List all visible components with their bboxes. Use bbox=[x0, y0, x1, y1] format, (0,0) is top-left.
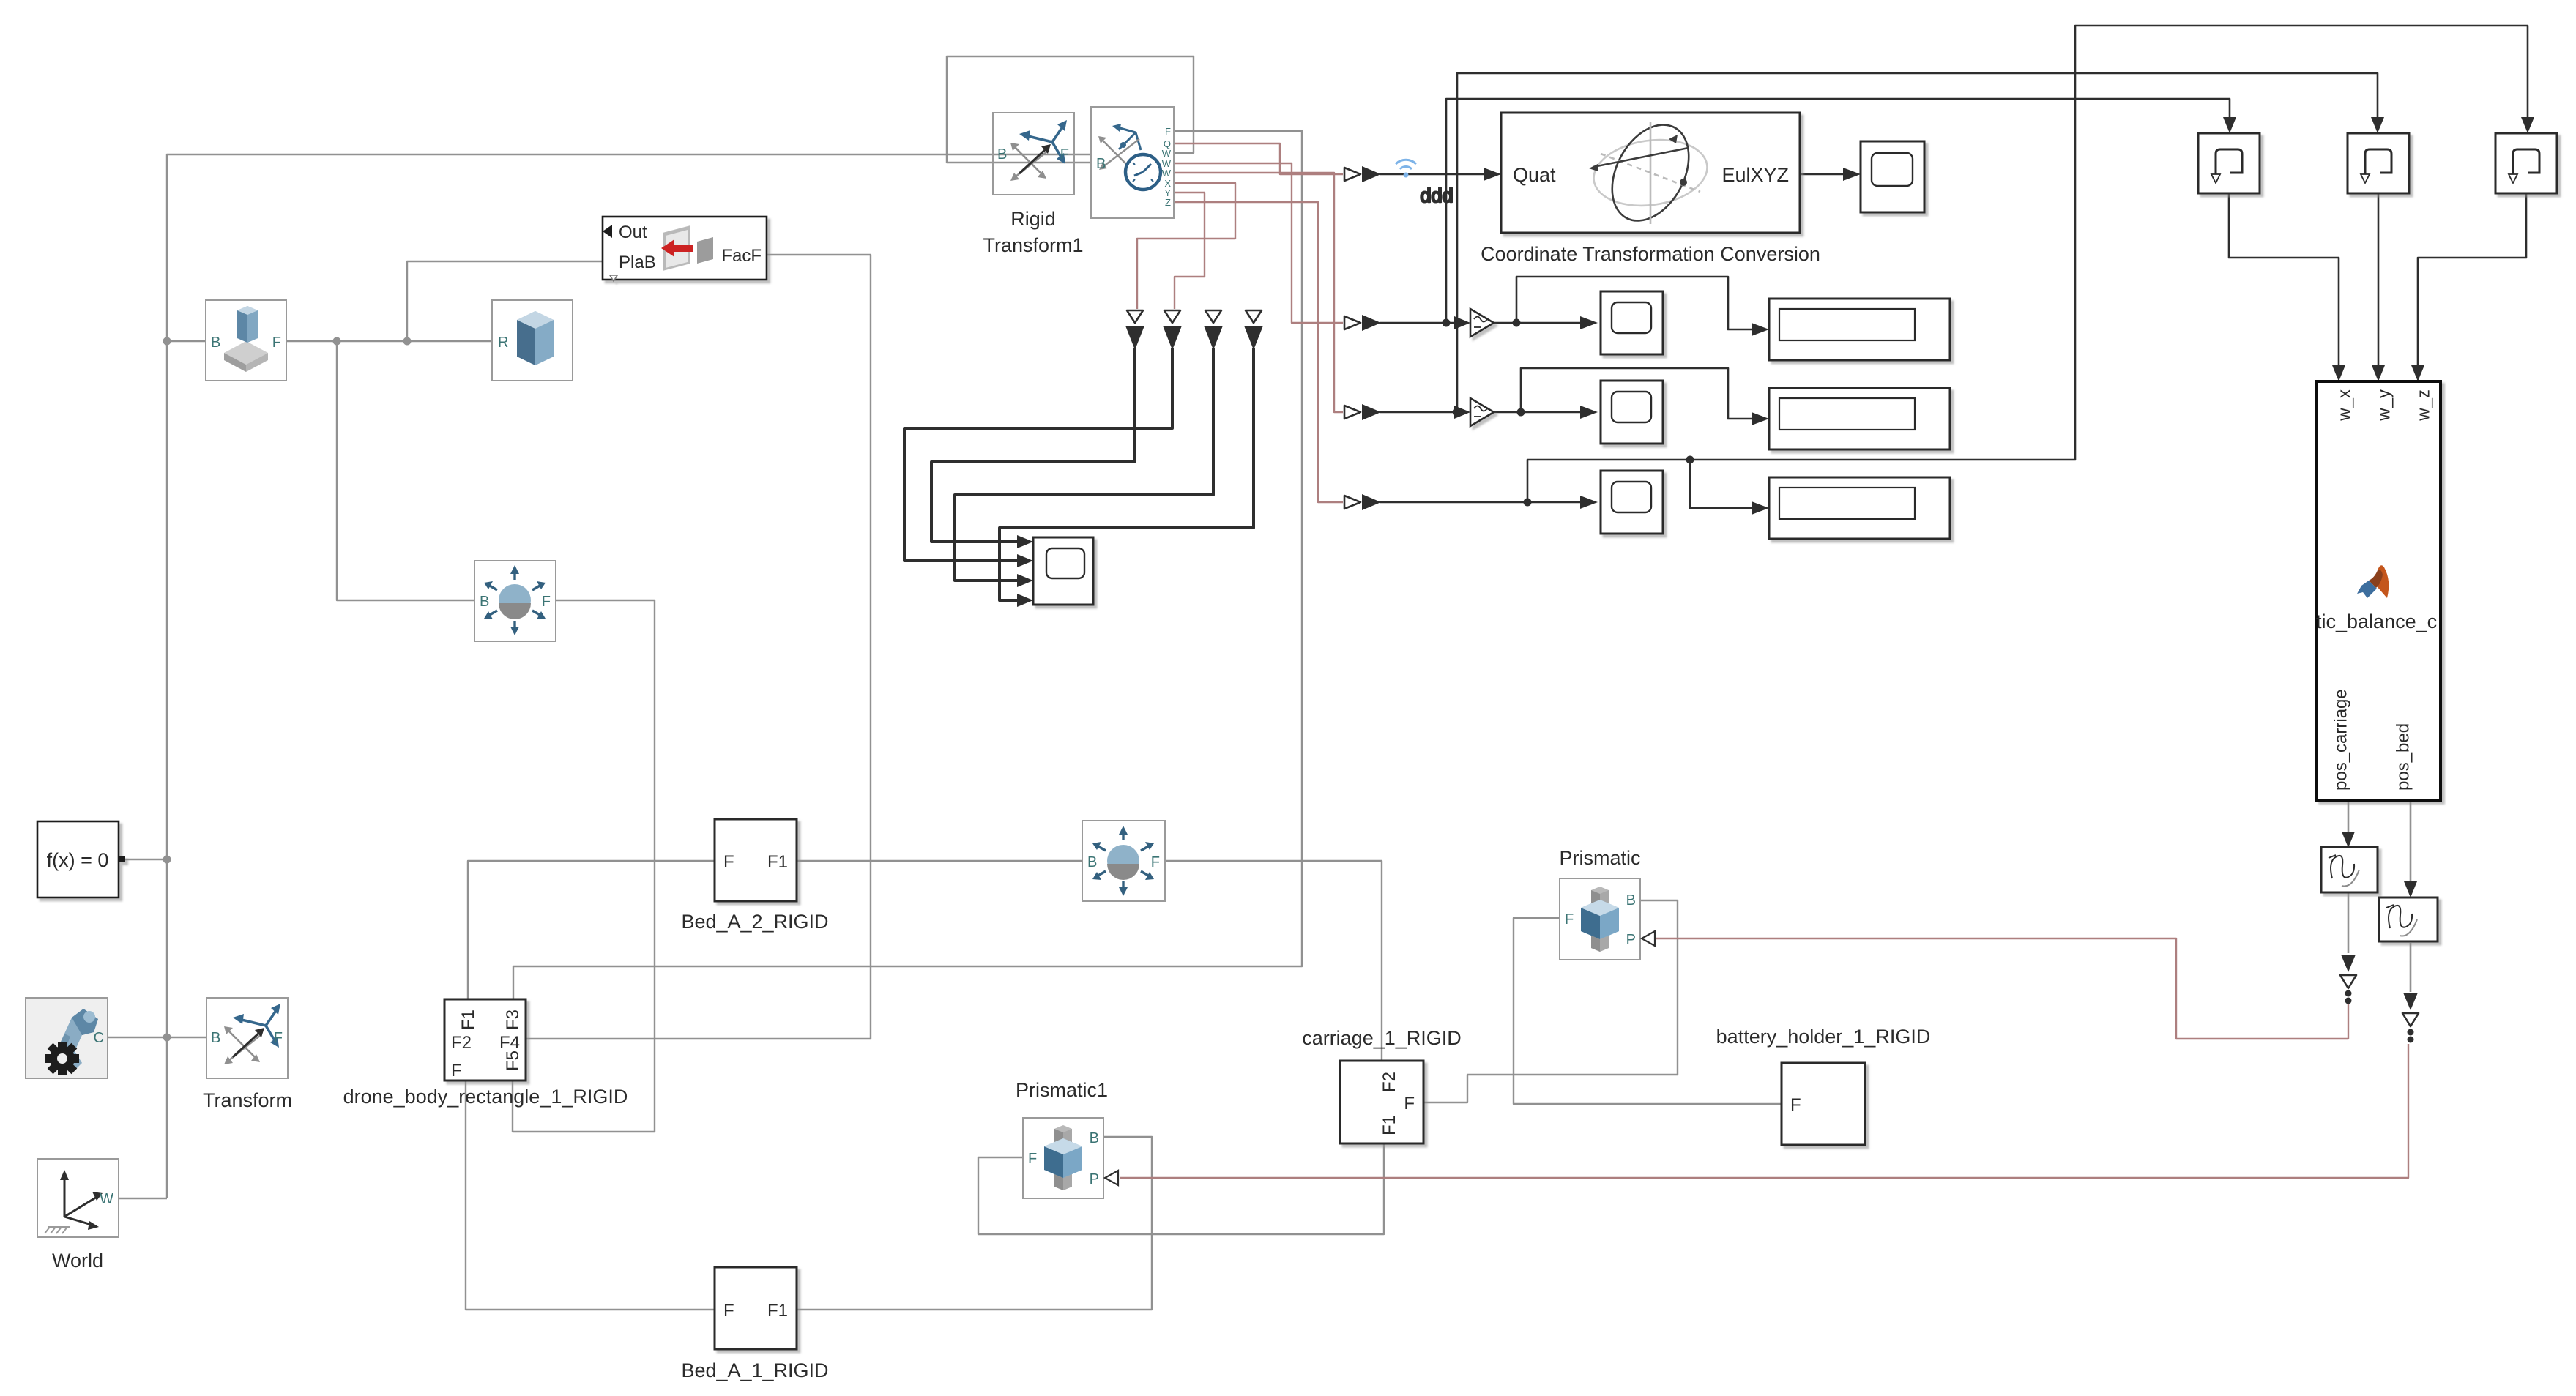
svg-text:Prismatic1: Prismatic1 bbox=[1016, 1079, 1108, 1101]
svg-text:w_y: w_y bbox=[2374, 389, 2394, 422]
svg-text:B: B bbox=[997, 146, 1007, 163]
svg-text:F: F bbox=[1060, 146, 1069, 163]
block planar pedestal joint bbox=[206, 300, 286, 381]
wire sensor Q to ddd input bbox=[1174, 143, 1343, 174]
wire sensor X to goto arrow 1 bbox=[1137, 183, 1235, 309]
block scope EulXYZ bbox=[1861, 141, 1924, 212]
wire integrator1 to w_x bbox=[2229, 193, 2339, 366]
svg-text:F: F bbox=[274, 1030, 283, 1046]
wire row3 w signal bbox=[1380, 501, 1580, 504]
wire Mechanism Configuration C to Transform B bbox=[108, 1037, 206, 1038]
block display row1 bbox=[1769, 299, 1950, 360]
block spherical joint 2 bbox=[1082, 821, 1165, 901]
block integrator 2 bbox=[2348, 133, 2409, 193]
svg-text:B: B bbox=[480, 594, 489, 610]
block Transform (rigid transform) bbox=[203, 998, 292, 1111]
wire converter2 down chain bbox=[2410, 943, 2412, 992]
block drone_body_rectangle_1_RIGID bbox=[444, 999, 526, 1080]
svg-text:P: P bbox=[1626, 932, 1636, 948]
svg-text:Z: Z bbox=[1165, 197, 1171, 208]
wire spherical2 F right and down to carriage F2 bbox=[1166, 861, 1382, 1060]
svg-text:F: F bbox=[272, 335, 281, 351]
svg-text:F: F bbox=[1028, 1151, 1037, 1167]
block Mechanism Configuration bbox=[26, 998, 108, 1078]
block World Frame bbox=[37, 1159, 119, 1272]
goto arrow 4 bbox=[1246, 310, 1262, 323]
svg-text:Coordinate Transformation Conv: Coordinate Transformation Conversion bbox=[1481, 243, 1820, 265]
svg-text:F1: F1 bbox=[767, 852, 788, 872]
wire Bed_A_1 F1 to Prismatic1 B bbox=[797, 1137, 1152, 1310]
svg-text:W: W bbox=[1162, 168, 1172, 179]
wire Prismatic1 F to carriage F1 bbox=[978, 1144, 1384, 1234]
svg-text:B: B bbox=[211, 1030, 220, 1046]
wire spherical1 F down and left to drone F5 bbox=[513, 600, 655, 1132]
wire row2 w signal bbox=[1380, 411, 1456, 414]
block battery_holder_1_RIGID bbox=[1782, 1063, 1865, 1145]
block Coordinate Transformation Conversion bbox=[1501, 112, 1800, 234]
svg-text:Transform1: Transform1 bbox=[983, 234, 1083, 256]
svg-text:World: World bbox=[52, 1250, 103, 1272]
goto arrow 1 bbox=[1127, 310, 1143, 323]
block display row3 bbox=[1769, 477, 1950, 539]
svg-text:drone_body_rectangle_1_RIGID: drone_body_rectangle_1_RIGID bbox=[343, 1086, 628, 1108]
svg-text:F: F bbox=[451, 1061, 462, 1080]
wire branch up to PlaB port bbox=[407, 261, 603, 341]
svg-text:B: B bbox=[1090, 1130, 1099, 1146]
wire sensor Z to row3 input bbox=[1174, 202, 1343, 502]
wire pos_bed to converter bbox=[2410, 800, 2412, 884]
svg-text:F1: F1 bbox=[1380, 1115, 1399, 1135]
wire loop sensor W1 around to sensor B bbox=[947, 56, 1194, 163]
svg-text:Rigid: Rigid bbox=[1010, 208, 1056, 230]
wire Prismatic1 P actuation from pos_bed chain bbox=[1120, 1044, 2408, 1178]
svg-text:F2: F2 bbox=[451, 1033, 472, 1053]
svg-text:w_x: w_x bbox=[2334, 389, 2354, 422]
svg-text:pos_carriage: pos_carriage bbox=[2331, 689, 2350, 791]
wire main conserving bus: World vertical and top run to Rigid Transform1 B bbox=[167, 154, 1091, 1198]
svg-text:B: B bbox=[1626, 892, 1636, 908]
svg-text:Prismatic: Prismatic bbox=[1559, 847, 1640, 869]
block Solver Configuration f(x)=0 bbox=[37, 821, 125, 897]
block scope 4-input bbox=[1033, 537, 1093, 605]
block carriage_1_RIGID bbox=[1340, 1061, 1423, 1143]
block MATLAB Function static_balance bbox=[2316, 381, 2441, 800]
wire branch down to spherical joint 1 B bbox=[337, 341, 474, 600]
wire sensor W3 to row2 input bbox=[1174, 173, 1343, 412]
block Rigid Transform1 bbox=[983, 113, 1083, 256]
svg-text:ddd: ddd bbox=[1420, 184, 1453, 206]
wire row2 branch to display bbox=[1521, 368, 1754, 419]
wire Prismatic P actuation from pos_carriage chain bbox=[1656, 938, 2348, 1039]
svg-text:F: F bbox=[1151, 854, 1160, 870]
svg-text:f(x) = 0: f(x) = 0 bbox=[47, 849, 109, 871]
svg-text:F: F bbox=[1165, 126, 1171, 137]
wire bus to planar joint B bbox=[167, 340, 206, 342]
wire planar joint F to solid R bbox=[286, 340, 492, 342]
svg-text:B: B bbox=[211, 335, 220, 351]
block scope row1 bbox=[1601, 291, 1663, 354]
wire integrator2 to w_y bbox=[2378, 193, 2380, 366]
svg-text:Bed_A_2_RIGID: Bed_A_2_RIGID bbox=[681, 911, 828, 933]
wire row1 branch up to integrator 1 bbox=[1446, 99, 2230, 323]
wifi logged-signal icon bbox=[1396, 160, 1416, 169]
block Bed_A_2_RIGID bbox=[715, 819, 797, 901]
svg-text:w_z: w_z bbox=[2413, 389, 2433, 422]
svg-text:tic_balance_c: tic_balance_c bbox=[2316, 611, 2437, 632]
wire row3 branch up over to integrator 3 bbox=[1527, 26, 2528, 502]
svg-text:F5: F5 bbox=[503, 1050, 523, 1071]
wire sensor F down and left to drone F3 bbox=[513, 131, 1302, 999]
wire row3 branch to display bbox=[1690, 460, 1754, 508]
block integrator 3 bbox=[2495, 133, 2557, 193]
wire drone F1 up to Bed_A_2 F bbox=[468, 861, 715, 999]
wire FacF output down to drone F4 bbox=[526, 255, 871, 1039]
block Transform Sensor bbox=[1091, 107, 1174, 218]
wire sensor Y to goto arrow 2 bbox=[1174, 193, 1205, 309]
block Bed_A_1_RIGID bbox=[715, 1267, 797, 1349]
block integrator 1 bbox=[2198, 133, 2260, 193]
svg-text:carriage_1_RIGID: carriage_1_RIGID bbox=[1302, 1027, 1462, 1049]
svg-text:Bed_A_1_RIGID: Bed_A_1_RIGID bbox=[681, 1359, 828, 1381]
svg-text:F: F bbox=[723, 1301, 734, 1321]
wire pos_carriage to converter bbox=[2348, 800, 2350, 833]
wire integrator3 to w_z bbox=[2418, 193, 2526, 366]
svg-text:R: R bbox=[498, 335, 508, 351]
svg-text:B: B bbox=[1096, 156, 1106, 172]
svg-text:F1: F1 bbox=[458, 1009, 478, 1030]
wire Solver Configuration to bus bbox=[119, 859, 167, 860]
wire World W to bus bbox=[119, 1198, 167, 1199]
svg-text:F3: F3 bbox=[503, 1009, 523, 1030]
wire Prismatic F to battery_holder F bbox=[1514, 918, 1782, 1104]
wire drone F down to Bed_A_1 F bbox=[466, 1081, 715, 1310]
svg-text:F1: F1 bbox=[767, 1301, 788, 1321]
wire Bed_A_2 F1 to spherical joint 2 B bbox=[797, 860, 1082, 862]
svg-text:F: F bbox=[723, 852, 734, 872]
svg-text:F: F bbox=[1404, 1094, 1415, 1113]
svg-text:C: C bbox=[94, 1030, 104, 1046]
block Prismatic bbox=[1560, 878, 1655, 960]
wire EulXYZ to scope bbox=[1800, 173, 1844, 176]
svg-text:EulXYZ: EulXYZ bbox=[1721, 164, 1789, 186]
wire row1 branch to display bbox=[1516, 277, 1754, 329]
svg-text:F: F bbox=[1565, 911, 1574, 927]
block simulink-ps converter 2 bbox=[2379, 897, 2438, 941]
junction dots conserving bbox=[163, 337, 171, 346]
svg-text:F4: F4 bbox=[499, 1033, 520, 1053]
block scope row3 bbox=[1601, 471, 1663, 534]
svg-text:F: F bbox=[542, 594, 551, 610]
WIRES_GRAY bbox=[108, 56, 1782, 1310]
goto arrow 2 bbox=[1164, 310, 1180, 323]
wire sensor W2 to row1 input bbox=[1174, 163, 1343, 323]
wire carriage F to Prismatic B bbox=[1424, 900, 1678, 1102]
svg-text:FacF: FacF bbox=[721, 246, 762, 266]
goto arrow 3 bbox=[1205, 310, 1221, 323]
svg-text:Quat: Quat bbox=[1513, 164, 1556, 186]
block Out PlaB FacF (spatial contact force) bbox=[603, 217, 767, 281]
block scope row2 bbox=[1601, 381, 1663, 444]
svg-text:pos_bed: pos_bed bbox=[2393, 723, 2413, 791]
wire ddd signal to Quat bbox=[1380, 173, 1485, 176]
wire row2 branch up to integrator 2 bbox=[1457, 73, 2378, 412]
svg-text:P: P bbox=[1090, 1171, 1099, 1187]
svg-text:Transform: Transform bbox=[203, 1089, 292, 1111]
svg-text:F2: F2 bbox=[1380, 1072, 1399, 1092]
block simulink-ps converter 1 bbox=[2321, 847, 2378, 892]
svg-text:W: W bbox=[1162, 148, 1172, 159]
block display row2 bbox=[1769, 388, 1950, 449]
svg-text:PlaB: PlaB bbox=[619, 253, 656, 272]
wire row1 w signal bbox=[1380, 322, 1456, 324]
svg-text:F: F bbox=[1790, 1095, 1801, 1115]
WIRES_BLACK bbox=[904, 26, 2534, 1043]
svg-text:W: W bbox=[100, 1191, 113, 1207]
WIRES_RED bbox=[1120, 143, 2408, 1178]
wire converter1 down chain bbox=[2348, 892, 2350, 953]
block Prismatic1 bbox=[1023, 1118, 1118, 1198]
block spherical joint 1 bbox=[474, 561, 556, 641]
block converter triangle row1 bbox=[1470, 309, 1494, 337]
svg-text:battery_holder_1_RIGID: battery_holder_1_RIGID bbox=[1716, 1026, 1931, 1048]
block solid brick R bbox=[492, 300, 573, 381]
svg-text:Out: Out bbox=[619, 223, 647, 242]
block converter triangle row2 bbox=[1470, 398, 1494, 426]
svg-text:B: B bbox=[1087, 854, 1097, 870]
